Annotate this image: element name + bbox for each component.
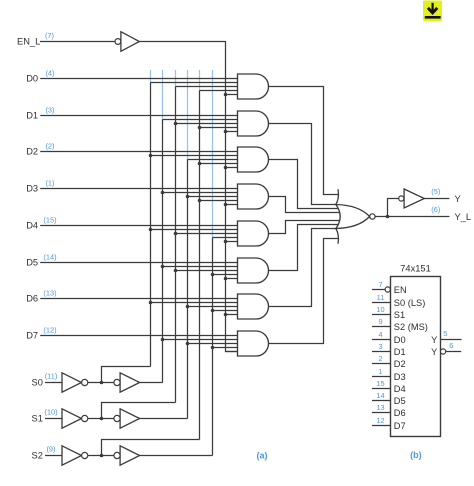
svg-text:S1: S1 [394,310,405,320]
pin stub S1 of 74x151 [372,314,391,316]
svg-text:(9): (9) [46,445,55,454]
wire gate A2 output to NOR input 2 [269,124,337,205]
inverter U4 (Y_L to Y) [404,189,424,208]
svg-text:Y: Y [455,194,461,204]
wire S0 true to select vertical [140,382,163,384]
pin stub S0 (LS) of 74x151 [372,302,391,304]
pin EN bubble [385,287,390,292]
pin stub D6 of 74x151 [372,412,391,414]
pin stub D7 of 74x151 [372,425,391,427]
svg-text:D4: D4 [26,221,38,231]
svg-text:4: 4 [378,330,382,339]
wire gate A6 output to NOR input 6 [269,225,340,271]
wire gate A2 select stub S0 [163,119,241,121]
junction EN to gate A7 [224,313,228,317]
wire gate A8 select stub S1 [188,343,241,345]
wire S1 select line vertical [187,160,189,419]
svg-text:EN_L: EN_L [17,37,40,47]
wire S0_L select line top stub (blue) [150,70,152,83]
svg-text:D6: D6 [26,294,38,304]
wire D4 [40,225,240,227]
svg-text:(a): (a) [257,450,268,460]
wire D3 [40,188,240,190]
junction S1_L [100,417,104,421]
wire Y_L net [375,216,449,218]
svg-text:D2: D2 [394,359,406,369]
wire gate A7 select stub S1 [188,306,241,308]
wire D7 [40,335,240,337]
wire Y output [424,198,449,200]
svg-text:D3: D3 [26,184,38,194]
wire S2 select line vertical [212,238,214,456]
wire S0 input [45,382,62,384]
74x151 symbol box U1 [391,277,441,437]
wire gate A7 EN stub [226,314,241,316]
wire gate A5 EN stub [226,241,241,243]
svg-text:7: 7 [378,280,382,289]
wire EN net horizontal [139,41,226,43]
svg-text:9: 9 [378,317,382,326]
download icon (yellow) [423,1,442,22]
junction S0_L [100,381,104,385]
pin stub D2 of 74x151 [372,363,391,365]
wire gate A3 select stub S2 [200,163,241,165]
pin stub EN of 74x151 [372,289,385,291]
wire S2_L up to select vertical [102,440,200,456]
junction S2_L [100,454,104,458]
wire S1 input [45,418,62,420]
inverter U9 (S2 complement) [62,446,82,465]
svg-text:S0: S0 [32,378,43,388]
wire gate A4 select stub S0 [163,192,241,194]
inverter U5 (S0 complement) [62,373,82,392]
AND gate A6 [238,258,269,283]
junction S1 to gate A4 [186,195,190,199]
junction S2n to gate A2 [198,126,202,130]
pin stub D5 of 74x151 [372,400,391,402]
svg-text:D2: D2 [26,147,38,157]
wire gate A6 select stub S2 [213,274,241,276]
pin stub D3 of 74x151 [372,376,391,378]
pin stub D4 of 74x151 [372,388,391,390]
svg-text:Y: Y [431,335,437,345]
svg-text:Y_L: Y_L [455,212,472,222]
pin stub S2 (MS) of 74x151 [372,326,391,328]
wire S1_L up to select vertical [102,403,176,419]
svg-text:11: 11 [377,293,385,302]
wire gate A4 select stub S2 [200,200,241,202]
wire gate A2 EN stub [226,131,241,133]
wire S1 select line top stub (blue) [187,70,189,160]
inverter U2 (EN_L to EN) [121,32,139,52]
svg-text:D0: D0 [26,74,38,84]
svg-text:D5: D5 [394,396,406,406]
junction S1 to gate A8 [186,342,190,346]
wire gate A1 select stub S0 [151,82,241,84]
svg-text:(11): (11) [45,372,58,381]
junction EN to gate A1 [224,93,228,97]
AND gate A4 [238,184,269,209]
wire gate A4 select stub S1 [188,196,241,198]
svg-text:3: 3 [378,342,382,351]
pin Y_L of 74x151 (with bubble) [441,349,446,354]
svg-text:(14): (14) [43,252,56,261]
svg-text:(3): (3) [45,105,54,114]
wire S1_L select line vertical [175,87,177,403]
wire gate A8 output to NOR input 8 [269,239,339,344]
inverter U8 (S1 buffer) [120,409,140,428]
wire S2_L select line vertical [199,91,201,440]
wire D2 [40,151,240,153]
wire gate A8 select stub S0 [163,339,241,341]
junction S0 to gate A4 [161,191,165,195]
wire gate A7 output to NOR input 7 [269,229,337,307]
junction S1n to gate A6 [174,269,178,273]
AND gate A1 [238,74,269,99]
NOR gate U3 (8-input) [336,205,370,229]
svg-text:74x151: 74x151 [400,264,431,274]
svg-text:(6): (6) [431,205,440,214]
wire S0 select line top stub (blue) [162,70,164,120]
svg-text:Y: Y [431,347,437,357]
svg-text:D3: D3 [394,372,406,382]
svg-text:(5): (5) [431,187,440,196]
wire EN_L [40,41,115,43]
wire EN net vertical [226,42,241,352]
svg-text:(7): (7) [45,31,54,40]
svg-text:(13): (13) [43,288,56,297]
inverter U7 (S1 complement) [62,409,82,428]
junction S2 to gate A6 [211,273,215,277]
svg-text:(12): (12) [43,325,56,334]
wire D1 [40,115,240,117]
junction S0n to gate A7 [149,301,153,305]
inverter U6 (S0 buffer) [120,373,140,392]
junction S0 to gate A6 [161,265,165,269]
pin stub D1 of 74x151 [372,351,391,353]
svg-text:(4): (4) [45,68,54,77]
wire gate A5 output to NOR input 5 [269,221,341,234]
wire gate A4 output to NOR input 4 [269,197,341,213]
wire up to Y inverter [388,199,399,217]
svg-text:D1: D1 [26,111,38,121]
svg-text:D1: D1 [394,347,406,357]
NOR gate top wing [336,189,339,204]
svg-text:1: 1 [378,367,382,376]
wire gate A5 select stub S0 [151,229,241,231]
wire gate A7 select stub S2 [213,310,241,312]
wire gate A2 select stub S2 [200,127,241,129]
wire gate A1 select stub S1 [176,86,241,88]
wire gate A3 EN stub [226,167,241,169]
svg-text:2: 2 [378,354,382,363]
svg-text:(2): (2) [45,141,54,150]
junction Y_L node [386,215,390,219]
svg-text:12: 12 [376,416,384,425]
wire gate A3 output to NOR input 3 [269,160,340,209]
svg-text:10: 10 [376,305,384,314]
svg-text:S2: S2 [32,451,43,461]
svg-text:EN: EN [394,285,407,295]
svg-text:S0 (LS): S0 (LS) [394,298,426,308]
svg-text:D4: D4 [394,384,406,394]
junction S2n to gate A4 [198,199,202,203]
wire S0_L node [88,382,114,384]
junction S2n to gate A3 [198,162,202,166]
AND gate A5 [238,221,269,246]
svg-text:D5: D5 [26,258,38,268]
svg-text:(15): (15) [43,215,56,224]
wire D5 [40,262,240,264]
svg-text:D7: D7 [26,331,38,341]
svg-text:(10): (10) [44,408,57,417]
AND gate A2 [238,111,269,136]
NOR output bubble [370,214,375,219]
wire gate A6 select stub S1 [176,270,241,272]
wire gate A3 select stub S1 [188,159,241,161]
NOR gate bottom wing [336,229,339,244]
svg-text:D0: D0 [394,335,406,345]
wire S1_L node [88,418,114,420]
junction EN to gate A5 [224,240,228,244]
pin stub D0 of 74x151 [372,339,391,341]
junction S1n to gate A2 [174,122,178,126]
AND gate A3 [238,147,269,172]
wire gate A6 select stub S0 [163,266,241,268]
svg-text:5: 5 [443,329,447,338]
junction S1 to gate A7 [186,305,190,309]
junction EN to gate A6 [224,277,228,281]
svg-text:13: 13 [376,403,384,412]
svg-text:6: 6 [449,341,453,350]
wire S2 select line top stub (blue) [212,70,214,238]
wire gate A8 EN stub [226,351,241,353]
wire gate A5 select stub S2 [213,237,241,239]
svg-text:D7: D7 [394,421,406,431]
wire D0 [40,78,240,80]
junction S0n to gate A3 [149,154,153,158]
svg-text:D6: D6 [394,408,406,418]
junction EN to gate A2 [224,130,228,134]
wire D6 [40,298,240,300]
svg-text:14: 14 [376,391,384,400]
wire S2 input [45,455,62,457]
junction S2 to gate A8 [211,346,215,350]
wire gate A7 select stub S0 [151,302,241,304]
junction S2 to gate A7 [211,309,215,313]
wire gate A5 select stub S1 [176,233,241,235]
svg-text:S2 (MS): S2 (MS) [394,322,428,332]
svg-text:15: 15 [376,379,384,388]
wire gate A1 EN stub [226,94,241,96]
wire gate A2 select stub S1 [176,123,241,125]
svg-text:S1: S1 [32,414,43,424]
wire S0 select line vertical [162,120,164,383]
svg-text:(1): (1) [45,178,54,187]
inverter U10 (S2 buffer) [120,446,140,465]
wire S0_L up to select vertical [102,367,151,383]
wire gate A8 select stub S2 [213,347,241,349]
junction EN to gate A4 [224,203,228,207]
wire S2_L node [88,455,114,457]
wire S1_L select line top stub (blue) [175,70,177,87]
wire gate A3 select stub S0 [151,155,241,157]
svg-text:(b): (b) [410,450,422,460]
pin Y of 74x151 [441,339,462,341]
wire S2 true to select vertical [140,455,213,457]
wire S0_L select line vertical [150,83,152,367]
wire S2_L select line top stub (blue) [199,70,201,91]
wire gate A6 EN stub [226,278,241,280]
junction S1n to gate A5 [174,232,178,236]
junction S0n to gate A5 [149,228,153,232]
junction EN to gate A3 [224,166,228,170]
junction S0 to gate A8 [161,338,165,342]
wire gate A1 select stub S2 [200,90,241,92]
wire S1 true to select vertical [140,418,188,420]
AND gate A8 [238,331,269,356]
wire gate A1 output to NOR input 1 [269,87,339,195]
AND gate A7 [238,294,269,319]
wire gate A4 EN stub [226,204,241,206]
